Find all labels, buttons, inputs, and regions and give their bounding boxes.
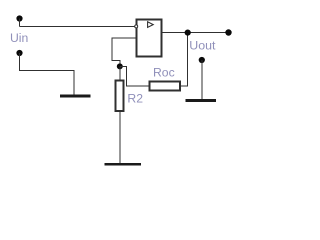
ground bbox=[105, 163, 142, 166]
ground bbox=[60, 95, 91, 98]
wire bbox=[20, 26, 135, 28]
wire Uout- to ground bbox=[201, 60, 203, 99]
node Uin+ terminal bbox=[16, 15, 22, 21]
node inverting junction bbox=[117, 63, 123, 69]
ground bbox=[186, 99, 217, 102]
wire bbox=[20, 53, 75, 95]
node output junction bbox=[185, 29, 191, 35]
op-amp U1 body bbox=[137, 20, 162, 57]
svg-text:R2: R2 bbox=[127, 92, 143, 106]
svg-text:Roc: Roc bbox=[153, 66, 175, 80]
wire op-amp output bbox=[162, 32, 228, 34]
svg-text:Uin: Uin bbox=[10, 31, 28, 45]
resistor Roc bbox=[150, 82, 181, 91]
wire Roc right lead up to output bbox=[180, 33, 187, 86]
svg-text:Uout: Uout bbox=[189, 38, 216, 52]
wire op-amp lower input bbox=[112, 38, 137, 66]
node Uout+ terminal bbox=[225, 29, 231, 35]
op-amp U1 inverting input bubble bbox=[135, 25, 138, 28]
wire feedback to Roc bbox=[120, 66, 149, 85]
node Uin- terminal bbox=[16, 50, 22, 56]
wire bbox=[19, 19, 21, 27]
wire R2 bottom lead bbox=[119, 111, 121, 163]
op-amp U1 amplifier triangle bbox=[148, 22, 154, 28]
wire R2 top lead bbox=[119, 66, 121, 80]
node Uout- terminal bbox=[199, 57, 205, 63]
resistor R2 bbox=[116, 81, 124, 112]
